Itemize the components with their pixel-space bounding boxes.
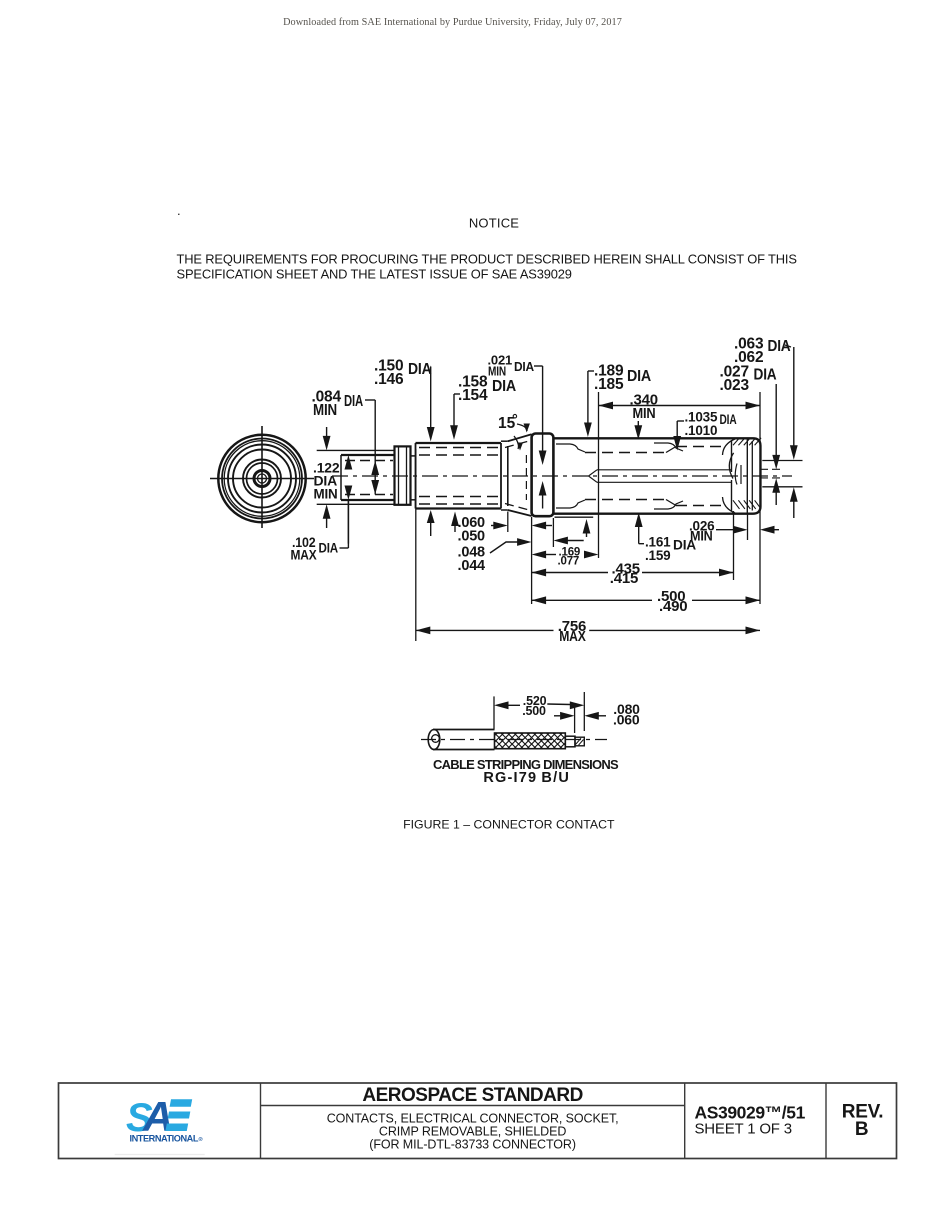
svg-text:SPECIFICATION SHEET AND THE LA: SPECIFICATION SHEET AND THE LATEST ISSUE… [177,267,572,282]
svg-text:B: B [855,1119,869,1140]
svg-text:.077: .077 [558,555,580,567]
svg-text:CRIMP REMOVABLE, SHIELDED: CRIMP REMOVABLE, SHIELDED [379,1124,566,1138]
extension line neck [507,512,509,533]
dim .027/.023 DIA [720,363,781,505]
svg-text:°: ° [512,413,518,429]
svg-text:.044: .044 [458,558,486,574]
tip extension lines horizontal [760,461,803,487]
extension line flange right [552,518,554,547]
internal bore dashed lines [585,447,727,506]
front barrel break lines [556,443,683,509]
svg-text:.159: .159 [645,548,670,563]
svg-text:AEROSPACE STANDARD: AEROSPACE STANDARD [362,1085,582,1106]
dim .084 MIN DIA [312,389,380,495]
front barrel [553,438,760,513]
dim .063/.062 DIA [734,335,798,518]
tip hatching [733,438,761,509]
main barrel [416,443,502,509]
title block divider logo/title [260,1083,262,1159]
dim .1035/.1010 DIA [673,409,737,450]
svg-text:RG-I79 B/U: RG-I79 B/U [483,770,570,786]
dim .340 MIN [599,392,761,440]
svg-text:.415: .415 [610,570,638,587]
dim .102 MAX DIA [291,500,349,563]
svg-text:DIA: DIA [768,338,791,355]
extension line flange left [531,517,533,604]
dim .161/.159 DIA [635,513,697,563]
svg-text:.050: .050 [458,528,486,544]
svg-text:MIN: MIN [488,363,506,378]
svg-text:MAX: MAX [559,628,586,645]
extension line socket depth [598,392,600,558]
socket spring slot [589,470,732,483]
dim .435/.415 [532,561,734,587]
svg-text:MIN: MIN [314,486,338,502]
title block divider title/number [684,1083,686,1159]
extension line left of barrel for .756 [415,449,417,641]
svg-text:DIA: DIA [754,367,777,384]
extension line part tip [759,392,761,604]
extension line tip inner [733,511,735,580]
svg-text:MIN: MIN [633,405,656,422]
svg-text:.154: .154 [458,387,488,404]
svg-text:NOTICE: NOTICE [469,216,519,231]
svg-text:DIA: DIA [319,540,339,556]
svg-text:MIN: MIN [313,402,337,419]
end view crosshair [210,426,314,528]
tip socket detail [723,439,753,513]
extension lines .122 dia [317,450,394,504]
svg-text:.1010: .1010 [685,423,718,438]
svg-text:.500: .500 [522,704,546,718]
dim .048/.044 [458,537,584,574]
flange [532,434,554,517]
dim .169/.077 [532,547,599,568]
svg-text:.: . [177,203,181,218]
cable centerline [421,739,607,741]
cable dim extension lines [494,692,584,733]
svg-text:INTERNATIONAL®: INTERNATIONAL® [130,1133,204,1143]
dim .122 DIA MIN [313,427,352,544]
dim .060/.050 [458,515,553,545]
svg-text:THE REQUIREMENTS FOR PROCURING: THE REQUIREMENTS FOR PROCURING THE PRODU… [177,252,797,267]
braid section crosshatched [482,733,582,749]
svg-text:Downloaded from SAE Internatio: Downloaded from SAE International by Pur… [283,17,622,28]
svg-text:.023: .023 [720,377,750,394]
svg-text:DIA: DIA [720,412,737,427]
svg-text:.185: .185 [594,376,624,393]
neck with 15 deg taper [501,434,532,516]
svg-text:.146: .146 [374,371,404,388]
svg-text:DIA: DIA [492,378,516,395]
dim .080/.060 cable [554,701,640,728]
title block horizontal divider [261,1105,685,1107]
dim .150/.146 DIA [374,357,435,536]
dim .021 MIN DIA [488,353,547,509]
rear crimp shaft [341,455,395,500]
step to main barrel [411,456,416,500]
svg-text:DIA: DIA [673,538,696,553]
svg-text:MAX: MAX [291,547,318,563]
svg-text:DIA: DIA [514,359,535,374]
dielectric step [565,736,575,747]
svg-text:.490: .490 [659,598,687,615]
end view concentric circles [218,435,305,522]
dim .026 MIN [689,514,779,543]
title block outer box [59,1083,897,1159]
dim .158/.154 DIA [450,373,516,532]
side view centerline [332,475,792,477]
cable jacket [428,730,494,750]
dim .500/.490 [532,588,760,615]
svg-text:DIA: DIA [627,368,651,385]
dim .756 MAX [416,618,760,645]
dim .520/.500 cable [494,694,584,718]
svg-text:.060: .060 [613,712,640,728]
svg-text:(FOR MIL-DTL-83733 CONNECTOR): (FOR MIL-DTL-83733 CONNECTOR) [369,1138,576,1152]
dim .189/.185 DIA [555,362,652,537]
SAE logo [115,1093,205,1155]
svg-text:DIA: DIA [344,393,363,410]
collar ring [395,446,411,504]
svg-text:DIA: DIA [408,361,432,378]
svg-text:FIGURE 1 – CONNECTOR CONTACT: FIGURE 1 – CONNECTOR CONTACT [403,818,615,832]
dim 15 degrees [498,413,530,451]
center conductor stub [575,737,584,746]
title block divider number/rev [825,1083,827,1159]
svg-text:SHEET 1 OF 3: SHEET 1 OF 3 [695,1120,792,1137]
